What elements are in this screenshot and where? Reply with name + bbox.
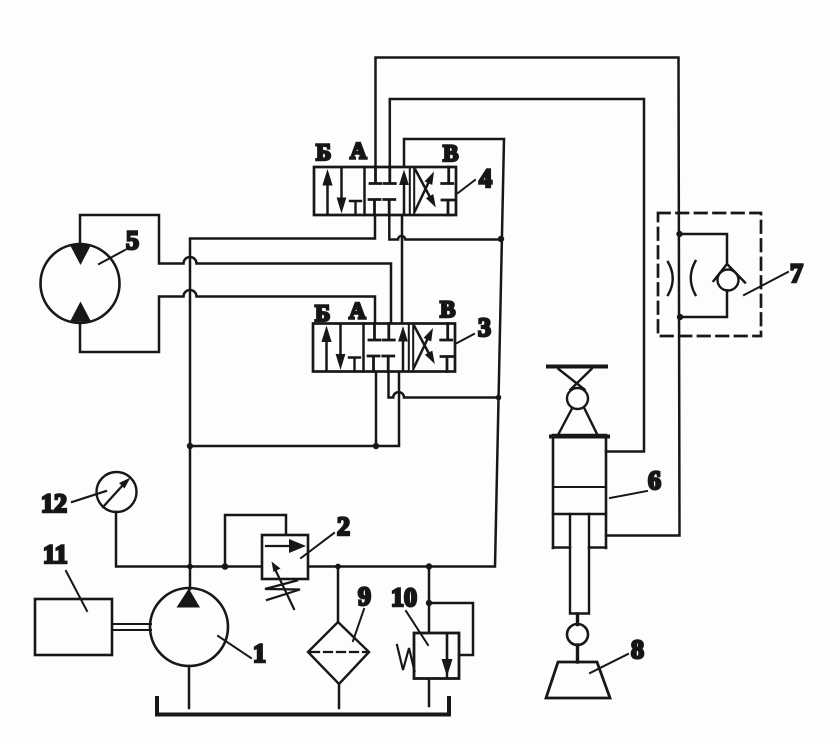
- relief valve 2: [262, 535, 308, 609]
- position A blocked port bottom 2: [384, 200, 395, 216]
- svg-text:Б: Б: [316, 140, 331, 165]
- position A blocked port top 1: [370, 167, 381, 184]
- position V blocked port top: [442, 167, 453, 184]
- check valve ball: [718, 270, 739, 291]
- motor shaft coupling: [112, 624, 151, 630]
- electric motor 11: [35, 599, 112, 655]
- cylinder 6 piston rod: [570, 514, 589, 614]
- junction dot relief pilot branch: [222, 563, 229, 570]
- wire: outer loop valve 4 top-left port to cylinder bottom side: [376, 58, 680, 536]
- position A pass-through up arrow: [403, 183, 406, 214]
- pump 1: [150, 588, 228, 666]
- wire: filter drain to tank: [338, 684, 341, 708]
- junction dot bypass top: [676, 231, 682, 237]
- svg-text:Б: Б: [315, 301, 330, 326]
- svg-text:А: А: [350, 139, 367, 164]
- cylinder 6 lower struts: [559, 409, 598, 435]
- rod joint circle: [567, 624, 588, 645]
- junction dot riser-branch: [187, 443, 193, 449]
- junction dot valve10 pilot: [426, 600, 432, 606]
- wire: valve 10 drain to tank: [428, 679, 431, 707]
- rod link upper: [576, 614, 579, 625]
- position A blocked port top 2: [384, 167, 395, 184]
- directional valve 3: [313, 324, 455, 372]
- svg-text:2: 2: [337, 512, 350, 541]
- throttle arc left: [668, 262, 673, 295]
- rod link lower: [576, 645, 579, 662]
- position B(left) up arrow: [326, 182, 329, 214]
- svg-text:А: А: [349, 299, 366, 324]
- wire: branch from riser to valve 3 bottom ports: [190, 372, 399, 447]
- unloading valve 10: [397, 633, 459, 679]
- section dividers right: [410, 167, 414, 215]
- filter 9: [308, 622, 369, 684]
- load 8 trapezoid: [546, 662, 610, 698]
- label 6 leader: [610, 491, 647, 498]
- label 10 leader: [406, 611, 428, 645]
- svg-text:6: 6: [648, 466, 661, 495]
- check valve seat: [714, 264, 746, 283]
- pressure gauge 12: [97, 472, 137, 512]
- position B(left) down arrow: [340, 169, 343, 199]
- wire: valve 3 bottom left port: [375, 372, 378, 447]
- svg-text:1: 1: [253, 639, 266, 668]
- svg-text:4: 4: [479, 164, 492, 193]
- junction dot main line at riser: [187, 564, 193, 570]
- wire: check valve bypass branch: [680, 234, 728, 317]
- label 12 leader: [72, 491, 106, 502]
- svg-text:10: 10: [391, 583, 417, 612]
- section divider left: [363, 167, 366, 215]
- wire: pump suction to tank: [188, 666, 191, 708]
- cylinder 6 upper struts: [559, 369, 592, 390]
- svg-text:8: 8: [631, 635, 644, 664]
- cylinder 6 trunnion circle: [567, 388, 588, 409]
- label 9 leader: [353, 609, 364, 641]
- wire: relief valve pilot line: [225, 515, 286, 567]
- wire: pump pressure riser to valve 4 port: [190, 215, 375, 589]
- junction dot tank line lower: [496, 395, 502, 401]
- directional valve 4: [314, 167, 456, 215]
- svg-text:11: 11: [43, 540, 68, 569]
- svg-text:9: 9: [358, 582, 371, 611]
- position B(left) tank T: [350, 201, 361, 214]
- hydraulic motor 5: [41, 244, 120, 323]
- throttle arc right: [691, 261, 696, 295]
- label 2 leader: [301, 533, 334, 558]
- svg-text:7: 7: [790, 259, 803, 288]
- junction dot valve3 port on branch: [373, 443, 379, 449]
- junction dot tank line upper: [498, 236, 504, 242]
- position V blocked port bottom: [442, 200, 454, 215]
- valve body: [314, 167, 456, 215]
- brake valve block 7 dashed enclosure: [658, 213, 761, 336]
- junction dot filter branch: [335, 564, 341, 570]
- wire: inner loop valve 4 top-middle port to cylinder top side: [390, 99, 644, 452]
- label 3 leader: [457, 334, 474, 343]
- svg-text:В: В: [440, 297, 455, 322]
- svg-text:5: 5: [126, 226, 139, 255]
- wire: filter branch down: [337, 567, 340, 623]
- junction dot valve10 branch: [426, 563, 432, 569]
- cylinder 6 mounting bar: [546, 365, 608, 369]
- label 11 leader: [66, 571, 87, 611]
- wire: motor 5 lower loop to valve 3 with hop over riser: [80, 290, 375, 352]
- position A blocked port bottom 1: [369, 200, 380, 216]
- label 5 leader: [99, 250, 125, 264]
- svg-text:12: 12: [41, 489, 67, 518]
- label 7 leader: [744, 272, 788, 295]
- wire: valve 3 tank branch with hop: [389, 372, 499, 398]
- wire: valve 4 top-right port box down to main return: [116, 139, 504, 567]
- label 8 leader: [590, 654, 628, 673]
- svg-text:3: 3: [478, 313, 491, 342]
- position V cross arrow up: [415, 182, 429, 212]
- position V cross arrow down: [416, 170, 431, 198]
- wire: valve 10 pilot loop: [429, 603, 473, 655]
- label 4 leader: [458, 180, 475, 193]
- svg-text:В: В: [443, 141, 458, 166]
- tank: [157, 698, 449, 715]
- junction dot bypass bottom: [677, 314, 683, 320]
- label 1 leader: [218, 636, 251, 658]
- cylinder 6 body: [551, 435, 608, 548]
- wire: valve 4 tank branch with hop: [389, 215, 501, 240]
- wire: motor 5 upper loop to valve 3 with hop over riser: [80, 215, 391, 324]
- wire: valve 10 branch down: [428, 567, 431, 634]
- wire: valve 4 to valve 3 center pass line: [401, 215, 404, 324]
